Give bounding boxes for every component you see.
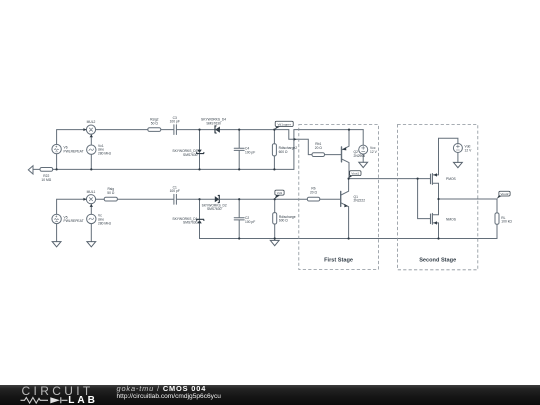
- resistor R22: [40, 168, 53, 172]
- svg-text:100 pF: 100 pF: [170, 120, 180, 124]
- svg-text:12 V: 12 V: [370, 150, 378, 154]
- svg-text:PMOS: PMOS: [446, 177, 457, 181]
- junction dots: [56, 168, 58, 170]
- ground below V5: [52, 242, 61, 247]
- svg-text:Vd1upper: Vd1upper: [277, 122, 290, 126]
- svg-text:100 pF: 100 pF: [245, 150, 255, 154]
- svg-text:Vout2: Vout2: [501, 192, 509, 196]
- svg-text:20 Ω: 20 Ω: [310, 191, 318, 195]
- source V5: [52, 214, 61, 223]
- resistor Rdischarge2: [273, 130, 275, 170]
- diode D3 cathode bar: [197, 153, 204, 154]
- svg-text:First Stage: First Stage: [324, 258, 353, 264]
- svg-text:50 Ω: 50 Ω: [107, 191, 115, 195]
- svg-text:Second Stage: Second Stage: [419, 258, 456, 264]
- bottom ground rail wire: [200, 238, 498, 240]
- node flag Vd1upper: [275, 121, 294, 129]
- diode D1 cathode bar: [197, 219, 204, 220]
- arrow into MUL2 left: [83, 128, 86, 131]
- wire Rb1 to Q2 base: [325, 154, 342, 156]
- svg-text:MUL1: MUL1: [87, 190, 96, 194]
- node flag Vout1: [348, 171, 361, 179]
- wire Vc1 bottom to rail: [90, 154, 92, 169]
- node flag Vout2: [497, 191, 510, 199]
- resistor Rsig2: [148, 128, 161, 132]
- capacitor C1: [174, 194, 177, 204]
- capacitor C4: [234, 130, 244, 170]
- arrow into MUL2 bottom: [90, 135, 93, 138]
- wire Vcc bottom: [362, 154, 364, 162]
- PMOS arrow: [433, 173, 437, 176]
- PMOS M1 source lead: [432, 138, 458, 175]
- CircuitLab logo LAB: [68, 396, 98, 405]
- wire Rsig to C1: [117, 198, 173, 200]
- wire rail-to-Vcc-rail vertical: [293, 130, 295, 170]
- resistor RL: [496, 199, 498, 239]
- transistor Q1 collector: [341, 179, 349, 196]
- PMOS M1 drain lead: [432, 183, 438, 199]
- input port terminal: [28, 166, 33, 174]
- wire port to R22: [33, 168, 40, 170]
- source Vcc: [359, 145, 368, 154]
- NMOS M2 source lead: [432, 223, 438, 239]
- resistor Rb1: [312, 153, 325, 157]
- wire Rsig2 to C3: [161, 129, 174, 131]
- ground below Vdd: [454, 162, 463, 167]
- arrow into MUL1 bottom: [90, 204, 93, 207]
- svg-text:2N2222: 2N2222: [354, 199, 366, 203]
- wire Vc to MUL1: [90, 204, 92, 214]
- wire MUL1 to Rsig: [96, 198, 105, 200]
- footer bar: [0, 385, 540, 405]
- diode D1 leads: [199, 199, 201, 238]
- arrow on Rb1 feed wire: [294, 138, 297, 141]
- source Vc1 sine: [87, 145, 96, 154]
- transistor Q2 emitter: [342, 130, 350, 150]
- First Stage dashed box: [299, 125, 379, 270]
- svg-text:600 Ω: 600 Ω: [279, 150, 288, 154]
- ground on bottom rail: [270, 240, 279, 245]
- transistor Q1 NPN arrow: [344, 204, 348, 207]
- multiplier MUL2: [86, 125, 95, 134]
- row1 bottom rail wire: [57, 168, 294, 170]
- svg-text:20 Ω: 20 Ω: [315, 146, 323, 150]
- diode D3 leads: [199, 130, 201, 170]
- arrow into MUL1 left: [83, 198, 86, 201]
- ground below Vcc: [359, 162, 368, 167]
- Second Stage dashed box: [398, 125, 478, 270]
- svg-text:12 V: 12 V: [465, 148, 473, 152]
- svg-text:100 pF: 100 pF: [170, 189, 180, 193]
- gate junction vertical wire: [418, 179, 431, 219]
- wire Rb to Q1 base: [320, 198, 341, 200]
- diode D2 cathode bar: [218, 196, 219, 203]
- wire MUL2 to Rsig2: [96, 129, 148, 131]
- wire C1 to D2: [177, 198, 215, 200]
- CircuitLab logo resistor and diode glyph: [0, 385, 120, 405]
- svg-text:MUL2: MUL2: [87, 120, 96, 124]
- resistor Rb: [307, 197, 320, 201]
- svg-text:600 Ω: 600 Ω: [279, 219, 288, 223]
- resistor Rsig: [104, 197, 117, 201]
- source V6: [52, 144, 61, 153]
- wire Vc1 to MUL2: [90, 134, 92, 145]
- svg-text:NMOS: NMOS: [446, 217, 457, 221]
- transistor Q2 PNP arrow: [342, 147, 346, 150]
- svg-text:2N2906: 2N2906: [354, 154, 366, 158]
- transistor Q2 base bar: [341, 147, 343, 162]
- NMOS arrow: [433, 221, 437, 224]
- svg-text:PWLREPEAT: PWLREPEAT: [64, 149, 84, 153]
- footer url text: [117, 393, 221, 400]
- wire Vout1 node to second stage gates: [349, 178, 431, 180]
- wire Vc bottom to ground: [90, 224, 92, 242]
- wire Vcc top: [362, 130, 364, 146]
- diode D4 triangle: [215, 127, 220, 133]
- svg-text:SMS7630: SMS7630: [206, 121, 221, 125]
- node flag Vd1: [274, 190, 284, 199]
- CircuitLab logo CIRCUIT: [22, 386, 94, 396]
- transistor Q1 emitter: [341, 203, 349, 239]
- wire D2 to Rb: [220, 198, 308, 200]
- svg-text:100 kΩ: 100 kΩ: [501, 220, 512, 224]
- svg-text:280 MHz: 280 MHz: [98, 221, 112, 225]
- PMOS M1 gate bar: [430, 174, 432, 184]
- diode D1 triangle: [197, 220, 202, 223]
- diode D3 triangle: [197, 150, 202, 153]
- svg-text:PWLREPEAT: PWLREPEAT: [64, 219, 84, 223]
- diode D2 triangle: [215, 196, 219, 202]
- svg-text:10 MΩ: 10 MΩ: [41, 178, 51, 182]
- svg-text:SMS7630: SMS7630: [207, 207, 222, 211]
- NMOS M2 drain lead: [432, 199, 438, 215]
- wire V6 bottom to rail: [56, 154, 58, 170]
- NMOS M2 gate bar: [430, 214, 432, 224]
- diode D4 cathode bar: [215, 126, 216, 133]
- svg-text:Vd1: Vd1: [277, 191, 283, 195]
- PMOS M1 channel bar: [431, 174, 433, 185]
- first stage top rail wire: [294, 129, 363, 131]
- capacitor C3: [174, 125, 177, 135]
- source Vdd: [453, 144, 462, 153]
- wire D4 to node: [220, 129, 289, 131]
- wire V6 top to MUL2: [57, 130, 87, 145]
- svg-text:50 Ω: 50 Ω: [151, 121, 159, 125]
- wire Vdd bottom: [457, 153, 459, 163]
- wire top node jog down to Rb1 feed: [289, 130, 312, 155]
- wire C3 to node: [177, 129, 215, 131]
- svg-text:100 pF: 100 pF: [245, 220, 255, 224]
- svg-text:SMS7630: SMS7630: [183, 221, 198, 225]
- ground below Vc: [87, 242, 96, 247]
- NMOS M2 channel bar: [431, 213, 433, 224]
- wire R22 to rail: [53, 168, 57, 170]
- capacitor C2: [234, 199, 244, 238]
- footer title text: [117, 385, 207, 393]
- svg-text:280 MHz: 280 MHz: [98, 152, 112, 156]
- svg-text:Vout1: Vout1: [351, 172, 359, 176]
- transistor Q1 base bar: [340, 191, 342, 206]
- multiplier MUL1: [86, 195, 95, 204]
- source Vc sine: [87, 214, 96, 223]
- resistor Rdischarge: [274, 199, 276, 238]
- wire V5 bottom to ground: [56, 224, 58, 242]
- transistor Q2 collector: [342, 159, 350, 179]
- row2 wire V5 top to MUL1: [57, 199, 87, 214]
- svg-text:SMS7630: SMS7630: [183, 153, 198, 157]
- wire output node to RL: [439, 198, 498, 200]
